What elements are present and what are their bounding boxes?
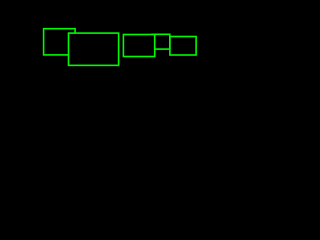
block E (right rectangle, back-right) (170, 37, 196, 56)
block C (middle rectangle, front-right) (123, 35, 154, 57)
block A (small square, back-left) (44, 29, 76, 55)
block B (large rectangle, front-left) (69, 33, 119, 65)
block D (small box, middle-right) (152, 34, 170, 49)
